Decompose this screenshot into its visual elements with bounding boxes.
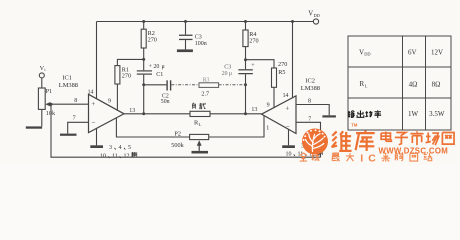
svg-text:12V: 12V [431, 48, 443, 56]
pin 9 label IC2 [267, 103, 270, 109]
svg-text:+ 20: + 20 [149, 64, 160, 70]
svg-text:3.5W: 3.5W [429, 110, 445, 118]
potentiometer P1 10k body [38, 88, 45, 109]
svg-text:14: 14 [283, 93, 289, 99]
node rail-C3 junction [184, 20, 187, 23]
svg-text:50n: 50n [161, 99, 170, 105]
svg-text:C1: C1 [156, 72, 163, 78]
wire R3 to node (faint) [219, 84, 246, 86]
svg-text:R3: R3 [203, 77, 210, 83]
P1 wiper arrow [45, 102, 51, 106]
wire Vi to P1 [41, 78, 43, 88]
node rail-R4 junction [244, 20, 247, 23]
wire wiper to IC1 pin8 [51, 103, 89, 105]
svg-text:12: 12 [124, 154, 130, 160]
svg-text:270: 270 [122, 73, 131, 80]
label 3,4,5 IC2 [301, 144, 323, 150]
watermark logo circle [302, 129, 328, 155]
svg-text:P2: P2 [174, 131, 181, 138]
svg-text:μ: μ [162, 64, 165, 70]
svg-text:13: 13 [251, 107, 257, 113]
wire node X to R1 [117, 59, 143, 65]
wire VDD top rail [97, 21, 314, 23]
label LM388 IC2 [301, 85, 320, 92]
wire IC2 pin8 to ground [296, 105, 329, 116]
svg-text:3: 3 [109, 145, 112, 151]
svg-text:10: 10 [100, 154, 106, 160]
svg-text:1W: 1W [408, 110, 419, 118]
svg-text:I: I [360, 153, 363, 165]
pin 13 label IC1 [129, 108, 135, 114]
svg-text:1: 1 [266, 126, 269, 132]
svg-text:10: 10 [286, 152, 292, 158]
svg-text:8: 8 [308, 98, 311, 104]
ground P2 wiper [192, 151, 209, 154]
P2 wiper arrow to ground [197, 140, 202, 151]
node output-C3 junction [244, 112, 247, 115]
terminal VDD [308, 11, 320, 25]
node X (R2/R1/C1) [142, 58, 145, 61]
capacitor C2 50n [161, 80, 171, 105]
svg-text:9: 9 [108, 98, 111, 104]
wire output line IC1 to IC2 (BTL) [124, 113, 262, 115]
svg-text:270: 270 [278, 61, 287, 68]
resistor R1 270 [115, 66, 131, 84]
node rail-R2 junction [142, 20, 145, 23]
svg-text:WWW.DZSC.COM: WWW.DZSC.COM [379, 146, 449, 155]
label IC2 [305, 78, 315, 85]
potentiometer P2 500k body [190, 134, 209, 139]
resistor R4 270 [243, 22, 259, 60]
svg-text:270: 270 [148, 37, 157, 44]
watermark bottom slogan [300, 153, 432, 165]
svg-text:μ: μ [229, 71, 232, 77]
resistor RL load [190, 111, 210, 116]
pin 9 label IC1 [108, 98, 111, 104]
wire C2 to R3 (faint) [171, 84, 199, 86]
svg-text:6V: 6V [408, 48, 417, 56]
wire R1 to pin 9 [116, 84, 118, 110]
node Y (R4/R5/C3) [244, 58, 247, 61]
wire IC1 pins345 ground stub [96, 128, 98, 145]
wire IC2 pins345 ground stub [288, 129, 290, 145]
label RL [194, 120, 202, 127]
svg-text:8Ω: 8Ω [432, 80, 441, 88]
capacitor C1 20u electrolytic [137, 59, 165, 113]
svg-text:4: 4 [119, 145, 122, 151]
label 3,4,5 IC1 [109, 145, 131, 151]
svg-text:TM: TM [351, 122, 358, 127]
capacitor C3 100n [179, 22, 207, 50]
wire IC1 to P2 row [116, 118, 189, 137]
node R3-output column junction [244, 83, 247, 86]
wire IC1 pin14 riser [96, 22, 98, 100]
wire IC1 pin7 to ground [68, 122, 89, 133]
pin 7 label IC2 [308, 117, 311, 123]
pin 14 label IC2 [283, 93, 289, 99]
node C2 branch on C1/output column [142, 83, 145, 86]
wire R5 to pin 9 IC2 [273, 87, 275, 108]
svg-text:C: C [368, 153, 376, 165]
wire input net bottom run to IC2 pin7 [51, 104, 321, 157]
pin 13 label IC2 [251, 107, 257, 113]
ground IC1 pins 3,4,5 [90, 145, 103, 148]
svg-text:IC2: IC2 [305, 78, 315, 85]
label P1 [46, 88, 53, 95]
wire P1 to ground [41, 109, 43, 126]
capacitor C3 20u electrolytic (right) [222, 60, 256, 114]
ground below C3 100n [177, 49, 193, 52]
node rail-IC2pin14 junction [291, 20, 294, 23]
label 10k [46, 110, 56, 117]
svg-text:−: − [91, 118, 95, 126]
resistor R5 270 [272, 61, 288, 87]
svg-text:+: + [285, 104, 289, 112]
wire P2 to IC2 pin1 [209, 116, 264, 137]
ground IC1 pin7 [60, 134, 77, 136]
svg-text:13: 13 [129, 108, 135, 114]
svg-text:P1: P1 [46, 88, 53, 95]
svg-text:DD: DD [364, 52, 370, 57]
watermark weiku big text [331, 131, 374, 151]
pin 1 label IC2 [266, 126, 269, 132]
ground P1 [26, 126, 42, 128]
svg-text:4Ω: 4Ω [409, 80, 418, 88]
svg-text:LM388: LM388 [301, 85, 320, 92]
label 10,11,12 pin IC2 [286, 150, 323, 157]
svg-text:L: L [199, 122, 202, 127]
ground IC2 pin8 [322, 115, 336, 117]
label P2 [174, 131, 181, 138]
pin 8 label IC2 [308, 98, 311, 104]
svg-text:C3: C3 [195, 34, 202, 40]
wire to C2 [144, 84, 167, 86]
svg-text:100n: 100n [195, 41, 207, 47]
watermark dianzi shichang wang [381, 131, 454, 145]
label 10,11,12 pin IC1 [100, 152, 137, 159]
wire IC2 pin7 to bottom net [296, 122, 321, 157]
svg-text:8: 8 [74, 98, 77, 104]
svg-text:270: 270 [249, 37, 258, 44]
svg-text:V: V [308, 11, 313, 18]
svg-text:20: 20 [222, 71, 228, 77]
svg-text:IC1: IC1 [62, 75, 72, 82]
svg-text:LM388: LM388 [59, 82, 78, 89]
svg-text:+: + [91, 100, 95, 108]
svg-text:7: 7 [73, 116, 76, 122]
wire IC2 pin14 riser [292, 22, 294, 99]
label IC1 [62, 75, 72, 82]
svg-text:9: 9 [267, 103, 270, 109]
resistor R3 2.7 [199, 77, 219, 97]
svg-text:−: − [286, 122, 290, 130]
node output-C1 junction [142, 112, 145, 115]
svg-text:14: 14 [88, 90, 94, 96]
ground IC2 pins 3,4,5 [282, 145, 295, 148]
table row VDD values [359, 48, 443, 56]
table output power [348, 36, 451, 130]
svg-text:2.7: 2.7 [201, 90, 209, 97]
label LM388 IC1 [59, 82, 78, 89]
svg-text:11: 11 [112, 154, 118, 160]
op-amp IC1 LM388 [89, 94, 125, 132]
watermark TM [351, 122, 358, 127]
svg-text:DD: DD [314, 13, 320, 18]
node wiper junction [50, 103, 53, 106]
watermark www.dzsc.com [379, 146, 449, 155]
table row output power values [348, 110, 445, 118]
label load (fuzai) [192, 103, 206, 109]
pin 7 label IC1 [73, 116, 76, 122]
terminal Vi input [39, 65, 46, 78]
svg-text:500k: 500k [171, 142, 184, 149]
svg-text:R5: R5 [278, 69, 285, 76]
resistor R2 270 [141, 22, 157, 60]
op-amp IC2 LM388 [262, 96, 297, 134]
pin 8 label IC1 [74, 98, 77, 104]
svg-text:5: 5 [128, 145, 131, 151]
svg-text:7: 7 [308, 117, 311, 123]
svg-text:C3: C3 [224, 64, 231, 70]
wire node Y to R5 [246, 60, 275, 68]
label 500k [171, 142, 184, 149]
svg-text:L: L [365, 83, 368, 88]
pin 14 label IC1 [88, 90, 94, 96]
table row RL values [360, 80, 441, 88]
